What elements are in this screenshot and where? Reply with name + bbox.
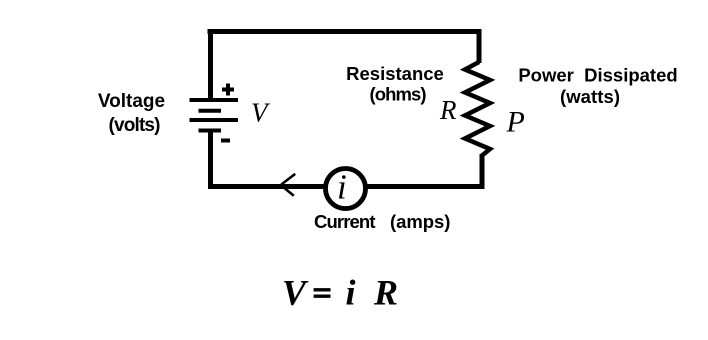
svg-text:P: P	[506, 106, 525, 139]
wire: right vertical lower (resistor to bottom wire)	[480, 154, 485, 189]
label: Power Dissipated (watts)	[518, 65, 677, 108]
svg-text:(watts): (watts)	[560, 86, 620, 107]
current direction arrow	[281, 174, 295, 196]
svg-text:(amps): (amps)	[390, 211, 450, 232]
svg-text:(ohms): (ohms)	[370, 84, 427, 105]
label: V (battery symbol)	[251, 98, 271, 128]
battery V (voltage source)	[190, 100, 239, 131]
label: P (power symbol)	[506, 106, 525, 139]
svg-text:Voltage: Voltage	[98, 91, 165, 112]
svg-text:V: V	[251, 98, 271, 128]
wire: left vertical lower (battery - to bottom wire)	[208, 131, 213, 189]
svg-text:i: i	[346, 273, 356, 313]
svg-text:Power Dissipated: Power Dissipated	[518, 65, 677, 86]
label: i (current symbol inside meter)	[337, 168, 347, 207]
svg-text:R: R	[373, 273, 398, 313]
svg-text:V: V	[282, 273, 309, 313]
resistor R	[465, 62, 490, 156]
wire: right vertical upper (top wire to resistor)	[477, 29, 482, 63]
label: R (resistor symbol)	[439, 95, 457, 125]
label: Current (amps)	[314, 211, 450, 232]
label: Resistance (ohms)	[346, 63, 444, 105]
ammeter i (current meter circle)	[326, 169, 366, 209]
svg-text:Current: Current	[314, 211, 376, 232]
label: battery + terminal	[222, 84, 234, 96]
svg-text:i: i	[337, 168, 347, 207]
wire: bottom horizontal	[208, 184, 484, 189]
label: battery - terminal	[221, 139, 230, 143]
equation equals sign	[314, 290, 331, 296]
label: Voltage (volts)	[98, 91, 165, 136]
svg-text:R: R	[439, 95, 457, 125]
svg-text:Resistance: Resistance	[346, 63, 444, 84]
wire: top horizontal	[208, 29, 482, 34]
svg-text:(volts): (volts)	[109, 115, 161, 136]
wire: left vertical upper (top wire to battery +)	[208, 29, 213, 100]
equation V = i R	[282, 273, 309, 313]
